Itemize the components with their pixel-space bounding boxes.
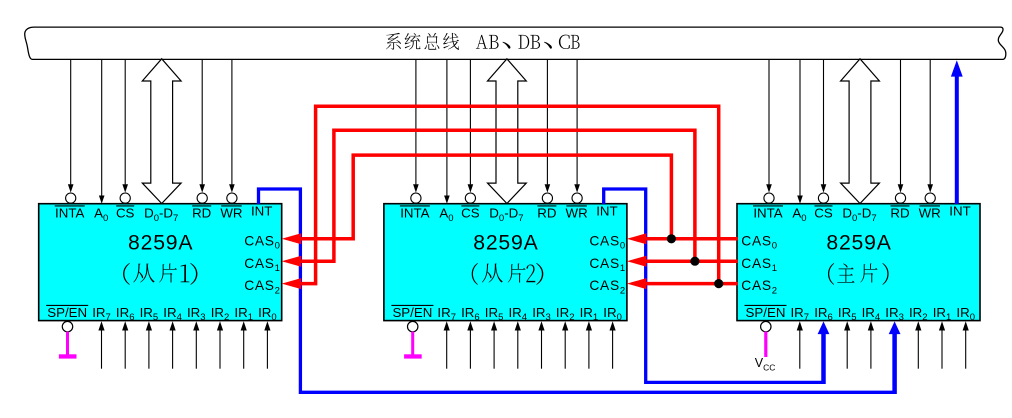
chip subtitle U3 （主片）: [828, 263, 889, 285]
wire bus to INTA pin U1: [66, 60, 76, 204]
wire IR1 pin U3: [939, 321, 945, 369]
wire IR6 pin U1: [122, 321, 128, 369]
svg-text:WR: WR: [919, 206, 941, 221]
wire IR7 pin U1: [98, 321, 104, 369]
wire bus to INTA pin U3: [764, 60, 774, 204]
svg-text:CS: CS: [116, 206, 135, 221]
wire bus to RD pin U3: [895, 60, 905, 204]
wire IR4 pin U3: [868, 321, 874, 369]
wire CAS2 net (red): [300, 106, 738, 283]
wire IR1 pin U1: [241, 321, 247, 369]
wire IR3 pin U1: [193, 321, 199, 369]
svg-text:WR: WR: [566, 206, 588, 221]
wire IR5 pin U3: [844, 321, 850, 369]
svg-text:8259A: 8259A: [473, 231, 538, 254]
pin labels top row U1: [55, 204, 273, 224]
wire IR4 pin U1: [170, 321, 176, 369]
svg-text:SP/EN: SP/EN: [746, 305, 786, 320]
CAS pin labels U1: [244, 233, 280, 296]
8259A chip U3 (主片): [737, 204, 980, 321]
wire CAS0 net (red): [300, 155, 738, 239]
CAS2 arrowhead into U1: [282, 278, 302, 289]
wire IR5 pin U2: [491, 321, 497, 369]
Vcc pull-up U3 (magenta): [755, 332, 776, 373]
svg-text:INT: INT: [251, 204, 272, 219]
wire bus to CS pin U3: [818, 60, 828, 204]
data bus double arrow U2 D0-D7: [488, 59, 527, 204]
junction dot CAS1: [690, 257, 699, 266]
wire INT U1 to IR3 U3 (blue): [259, 189, 901, 394]
wire bus to WR pin U3: [925, 60, 935, 204]
svg-text:INT: INT: [949, 204, 970, 219]
wire bus to A0 pin U1: [99, 60, 105, 204]
wire IR4 pin U2: [515, 321, 521, 369]
data bus double arrow U1 D0-D7: [142, 59, 181, 204]
pin labels top row U3: [753, 204, 971, 224]
pin labels top row U2: [400, 204, 618, 224]
svg-text:8259A: 8259A: [826, 231, 891, 254]
svg-text:8259A: 8259A: [128, 231, 193, 254]
ground symbol U1 (magenta): [59, 332, 77, 359]
CAS0 arrowhead into U1: [282, 233, 302, 244]
svg-text:VCC: VCC: [755, 356, 776, 373]
svg-text:SP/EN: SP/EN: [392, 305, 432, 320]
wire IR2 pin U1: [217, 321, 223, 369]
wire CAS1 net (red): [300, 130, 738, 261]
chip subtitle U1 （从片1）: [123, 263, 197, 285]
wire bus to INTA pin U2: [411, 60, 421, 204]
svg-text:WR: WR: [220, 206, 242, 221]
svg-text:INTA: INTA: [400, 206, 429, 221]
wire IR6 pin U2: [467, 321, 473, 369]
CAS1 arrowhead into U2: [627, 256, 647, 267]
wire bus to A0 pin U2: [444, 60, 450, 204]
system bus banner: [25, 27, 1006, 59]
8259A chip U2 (从片2): [384, 204, 627, 321]
8259A chip U1 (从片1): [39, 204, 282, 321]
wire bus to CS pin U2: [465, 60, 475, 204]
svg-text:RD: RD: [537, 206, 556, 221]
svg-text:CS: CS: [814, 206, 833, 221]
CAS pin labels U2: [589, 233, 625, 296]
data bus double arrow U3 D0-D7: [841, 59, 880, 204]
chip subtitle U2 （从片2）: [472, 263, 544, 285]
wire INT U2 to IR6 U3 (blue): [604, 189, 830, 384]
wire IR7 pin U2: [444, 321, 450, 369]
svg-text:CS: CS: [461, 206, 480, 221]
wire IR0 pin U3: [963, 321, 969, 369]
wire IR0 pin U1: [264, 321, 270, 369]
ground symbol U2 (magenta): [404, 332, 422, 359]
wire IR0 pin U2: [610, 321, 616, 369]
svg-text:SP/EN: SP/EN: [47, 305, 87, 320]
CAS1 arrowhead into U1: [282, 256, 302, 267]
junction dot CAS2: [714, 279, 723, 288]
pin labels bottom row U3: [745, 305, 976, 323]
SP/EN pin circle U3: [761, 321, 771, 331]
wire bus to RD pin U2: [542, 60, 552, 204]
wire IR2 pin U3: [915, 321, 921, 369]
bus label 系统总线 AB、DB、CB: [386, 33, 580, 50]
svg-text:INTA: INTA: [55, 206, 84, 221]
wire bus to WR pin U1: [227, 60, 237, 204]
svg-text:INT: INT: [596, 204, 617, 219]
wire bus to WR pin U2: [572, 60, 582, 204]
SP/EN pin circle U1: [62, 321, 72, 331]
svg-text:RD: RD: [192, 206, 211, 221]
svg-text:RD: RD: [890, 206, 909, 221]
wire IR5 pin U1: [146, 321, 152, 369]
CAS pin labels U3: [741, 233, 777, 296]
pin labels bottom row U1: [46, 305, 277, 323]
wire IR2 pin U2: [562, 321, 568, 369]
svg-text:INTA: INTA: [753, 206, 782, 221]
SP/EN pin circle U2: [408, 321, 418, 331]
CAS2 arrowhead into U2: [627, 278, 647, 289]
wire bus to CS pin U1: [120, 60, 130, 204]
wire IR1 pin U2: [586, 321, 592, 369]
wire INT U3 to system bus (blue): [951, 60, 963, 204]
pin labels bottom row U2: [391, 305, 622, 323]
junction dot CAS0: [667, 234, 676, 243]
wire IR3 pin U2: [538, 321, 544, 369]
wire IR7 pin U3: [797, 321, 803, 369]
CAS0 arrowhead into U2: [627, 233, 647, 244]
wire bus to A0 pin U3: [797, 60, 803, 204]
wire bus to RD pin U1: [197, 60, 207, 204]
